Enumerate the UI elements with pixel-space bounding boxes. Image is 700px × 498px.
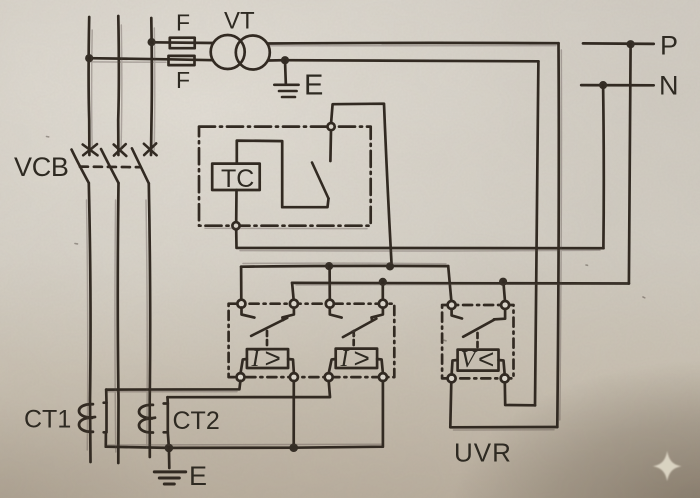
relay1 I> element box (247, 349, 288, 368)
relay2 moving lead (330, 308, 342, 318)
UVR terminal top-right (501, 301, 509, 309)
wire to UVR bottom-right (505, 382, 535, 406)
svg-text:TC: TC (221, 165, 254, 193)
relay1 fixed lead (282, 308, 294, 321)
lower bus node to UVR (499, 278, 507, 286)
VT secondary circle (236, 36, 270, 70)
svg-text:CT2: CT2 (173, 407, 220, 435)
CT1 secondary bracket (104, 403, 107, 433)
svg-text:<: < (478, 344, 494, 375)
node return CT earth (165, 444, 174, 453)
svg-text:VT: VT (224, 8, 255, 35)
node VT bottom earth tap (281, 56, 289, 64)
TC coil rect (212, 164, 260, 190)
VCB pole 2 blade (101, 149, 119, 183)
CT1 secondary line to relay1 (106, 381, 240, 390)
node on L1 to fuse F2 (85, 54, 93, 62)
TC internal wire coil to switch (237, 141, 329, 208)
relay1 terminal top-right (290, 300, 298, 308)
UVR terminal bottom-left (448, 374, 456, 382)
svg-text:E: E (304, 70, 323, 102)
upper bus right drop to UVR (448, 266, 451, 301)
UVR dashed box (442, 305, 513, 378)
upper bus node to relay2 (325, 262, 333, 270)
UVR terminal bottom-right (501, 374, 509, 382)
relay2 element right hook (377, 359, 383, 373)
UVR terminal top-left (448, 301, 456, 309)
sparkle ornament (653, 451, 682, 481)
lower bus node to relay2 (379, 278, 387, 286)
TC coil bottom wire (235, 190, 238, 222)
VCB linkage dashed (80, 165, 141, 168)
lower bus left drop to relay1 (292, 283, 294, 301)
UVR moving lead (452, 309, 462, 319)
relay1 terminal top-left (237, 300, 245, 308)
svg-text:F: F (176, 67, 190, 93)
CT2 primary winding (139, 405, 155, 433)
svg-text:>: > (265, 342, 281, 373)
CT return line (106, 381, 383, 448)
relay1 contact blade (251, 318, 287, 336)
VCB pole 3 X mark (144, 143, 157, 155)
VT secondary bottom wire to right (268, 60, 539, 61)
UVR actuator dashed link (476, 333, 479, 349)
phase bus L2 vertical (117, 16, 120, 155)
phase bus L1 vertical (87, 17, 91, 155)
TC bottom terminal (232, 222, 239, 229)
junction TC wire on upper bus (386, 262, 394, 270)
svg-text:I: I (340, 346, 350, 372)
sketch ghost strokes (87, 25, 628, 452)
relay1 bottom-right drop (292, 381, 295, 448)
wire to UVR bottom-left (450, 382, 557, 428)
VCB pole 1 X mark (83, 144, 98, 155)
TC aux switch blade (312, 163, 329, 199)
svg-text:F: F (176, 10, 190, 36)
relay1 element left hook (241, 359, 247, 373)
relay2 fixed lead (372, 308, 383, 321)
TC return wire (236, 229, 603, 248)
svg-text:V: V (461, 347, 478, 373)
wire L3 node to VT (152, 41, 214, 44)
svg-text:CT1: CT1 (24, 406, 71, 434)
CT2 bottom lead (168, 432, 169, 448)
phase L1 lower wire (89, 183, 91, 462)
relay1 moving lead (242, 308, 255, 318)
P node (627, 40, 635, 48)
relay2 right drop (381, 282, 384, 301)
N node (599, 81, 607, 89)
fuse F1 (170, 38, 195, 49)
wire L1 node to VT (89, 58, 213, 60)
node return relay1 (289, 443, 298, 452)
relay2 terminal bottom-right (379, 373, 387, 381)
phase L3 lower wire (149, 183, 150, 457)
CT2 top lead (166, 397, 169, 403)
relay1 actuator dashed link (266, 331, 269, 348)
UVR V< element box (458, 350, 499, 371)
UVR fixed lead (494, 309, 505, 320)
relay2 contact blade (343, 319, 377, 338)
phase L2 lower wire (116, 183, 119, 463)
svg-text:P: P (660, 31, 678, 61)
N terminal line (581, 84, 654, 87)
UVR element left hook (452, 360, 458, 375)
earth wire from CT junction (168, 448, 171, 468)
earth symbol bottom (154, 472, 185, 484)
svg-text:N: N (659, 71, 679, 101)
P terminal line (583, 42, 654, 45)
P vertical down to lower trip bus (629, 44, 631, 283)
UVR element right hook (499, 360, 505, 375)
relay2 actuator dashed link (352, 331, 355, 348)
svg-text:E: E (189, 461, 207, 491)
relay1 terminal bottom-left (237, 373, 245, 381)
relay2 I> element box (336, 349, 377, 368)
VCB pole 3 blade (132, 148, 149, 183)
VCB pole 2 X mark (114, 144, 127, 156)
VT secondary top wire to right (267, 42, 558, 45)
vertical from VT bottom wire down (535, 61, 538, 405)
svg-text:>: > (354, 342, 370, 373)
UVR right drop (503, 282, 505, 302)
svg-text:I: I (251, 346, 261, 372)
overcurrent relays dashed box (229, 304, 395, 377)
upper bus left drop to relay1 (240, 267, 243, 301)
relay2 terminal top-left (326, 300, 334, 308)
stray pencil specks (47, 137, 645, 341)
lower trip bus (292, 281, 629, 284)
CT2 secondary line to relay2 (168, 381, 331, 397)
relay1 element right hook (288, 359, 294, 373)
phase bus L3 vertical (150, 18, 154, 155)
relay2 terminal top-right (379, 300, 387, 308)
svg-text:VCB: VCB (14, 152, 69, 182)
relay2 element left hook (329, 359, 336, 373)
CT1 top lead (105, 390, 108, 403)
node on L3 to fuse F1 (148, 38, 156, 46)
CT2 secondary bracket (164, 404, 168, 433)
fuse F2 (169, 56, 195, 65)
TC top terminal (328, 123, 335, 130)
relay1 terminal bottom-right (290, 373, 298, 381)
svg-text:UVR: UVR (454, 438, 512, 468)
TC aux switch fixed stub (329, 130, 332, 161)
N vertical down to TC return (602, 85, 605, 248)
CT1 primary winding (79, 404, 95, 432)
VT primary circle (211, 35, 245, 69)
right vertical from VT top wire down to UVR return (557, 43, 559, 427)
CT1 bottom lead (104, 432, 107, 446)
relay2 terminal bottom-left (325, 373, 333, 381)
VCB pole 1 blade (72, 150, 89, 184)
upper trip bus (241, 265, 448, 269)
earth symbol top (274, 85, 298, 97)
TC top wire to trip bus (331, 104, 391, 263)
earth wire from VT (284, 61, 287, 84)
TC dashed box (199, 127, 371, 226)
UVR contact blade (463, 320, 494, 337)
relay2 drop (328, 266, 331, 300)
